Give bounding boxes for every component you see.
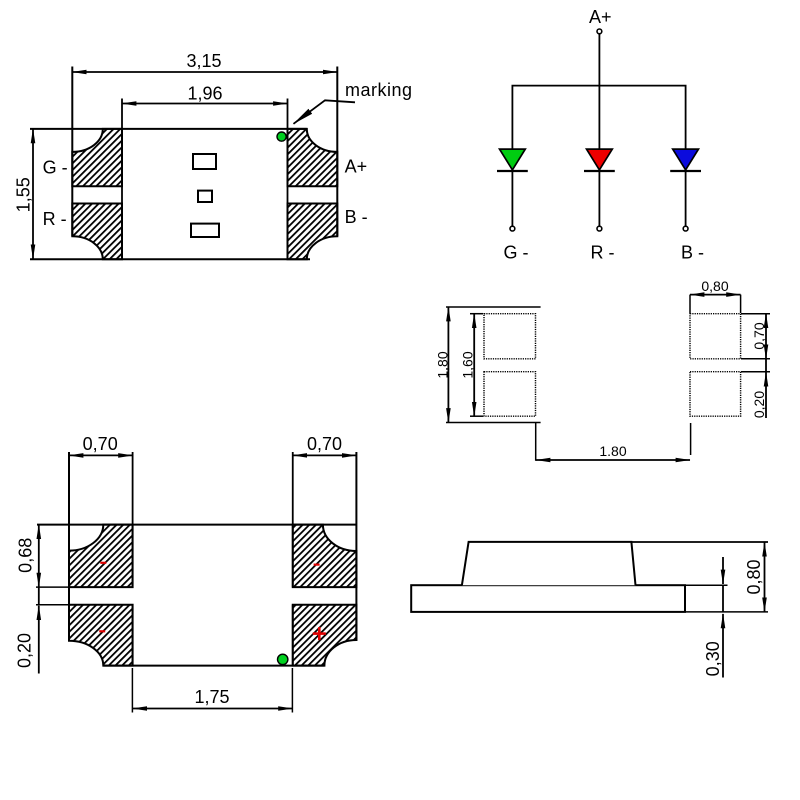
svg-text:R -: R - xyxy=(43,209,67,229)
svg-text:0,20: 0,20 xyxy=(15,633,35,668)
svg-text:1,55: 1,55 xyxy=(14,177,34,212)
svg-text:1,60: 1,60 xyxy=(459,351,475,378)
svg-text:B -: B - xyxy=(345,207,368,227)
svg-text:0,80: 0,80 xyxy=(744,559,764,594)
svg-text:0,30: 0,30 xyxy=(703,641,723,676)
svg-text:0,20: 0,20 xyxy=(751,391,767,418)
svg-text:0,80: 0,80 xyxy=(701,278,728,294)
svg-text:G -: G - xyxy=(504,243,529,263)
svg-text:1.80: 1.80 xyxy=(599,443,626,459)
svg-text:A+: A+ xyxy=(345,157,368,177)
svg-text:1,80: 1,80 xyxy=(435,351,451,378)
svg-text:0,70: 0,70 xyxy=(83,434,118,454)
svg-text:0,70: 0,70 xyxy=(751,322,767,349)
svg-text:B -: B - xyxy=(681,243,704,263)
svg-text:marking: marking xyxy=(345,80,413,100)
svg-text:G -: G - xyxy=(43,157,68,177)
svg-text:1,96: 1,96 xyxy=(187,84,222,104)
svg-text:3,15: 3,15 xyxy=(186,51,221,71)
svg-text:A+: A+ xyxy=(589,7,612,27)
svg-text:0,68: 0,68 xyxy=(16,538,36,573)
svg-text:0,70: 0,70 xyxy=(307,434,342,454)
svg-text:R -: R - xyxy=(591,243,615,263)
svg-text:1,75: 1,75 xyxy=(194,687,229,707)
